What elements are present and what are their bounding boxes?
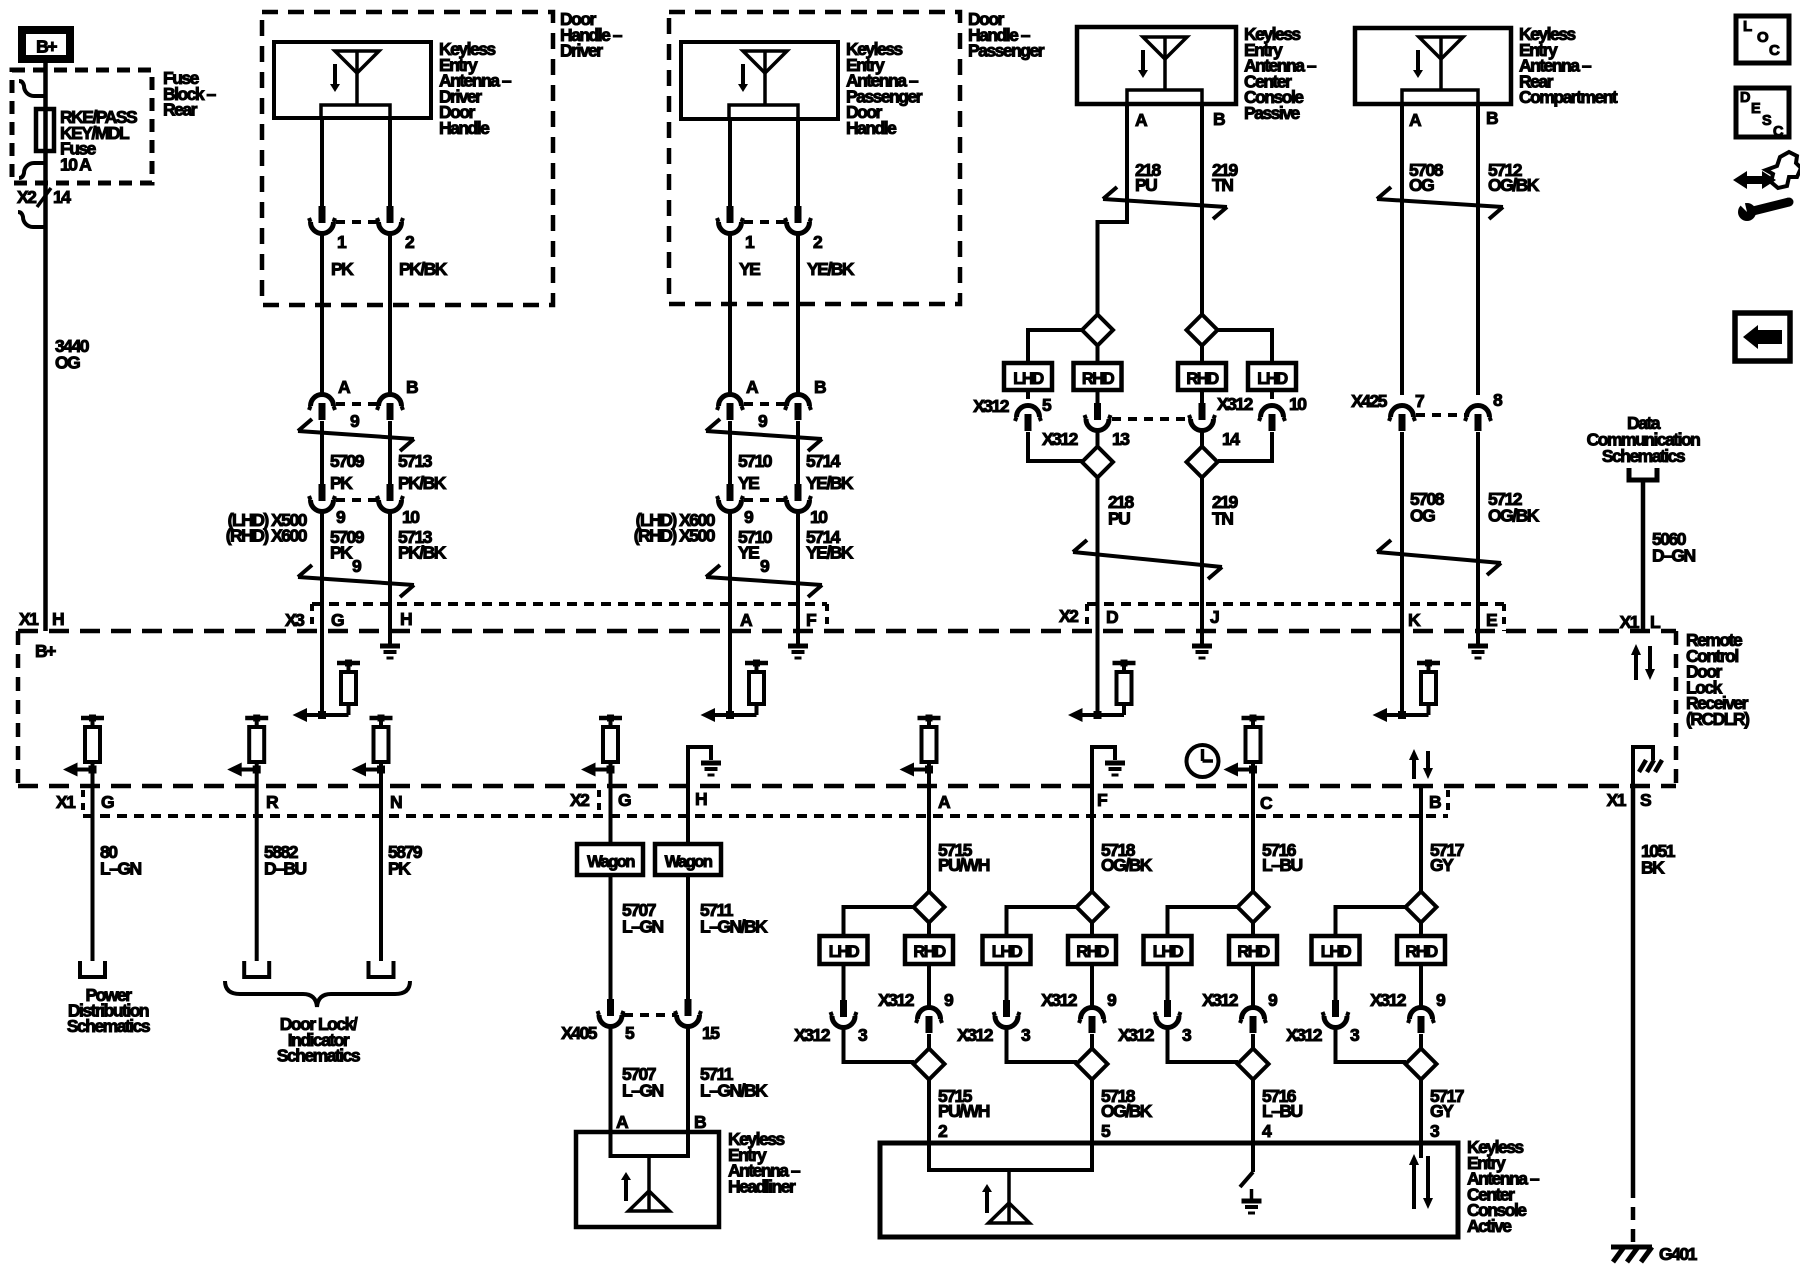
wire 5718 to cc active box	[1090, 1079, 1094, 1143]
svg-text:X312: X312	[1217, 394, 1254, 414]
wire to RHD box 5718	[1090, 922, 1094, 936]
connector strip X3	[312, 602, 827, 606]
wire LHD to lower diamond 5715	[844, 1028, 915, 1062]
svg-text:H: H	[400, 609, 412, 629]
svg-text:B: B	[1486, 108, 1498, 128]
connector X500 pin 9 driver	[319, 484, 326, 501]
svg-text:X425: X425	[1351, 391, 1388, 411]
svg-text:10: 10	[402, 507, 420, 527]
output element C with clock	[1242, 716, 1265, 721]
antenna terminal bar passenger	[729, 105, 798, 119]
svg-text:Wagon: Wagon	[665, 853, 713, 871]
connector pin 1 driver	[319, 206, 326, 223]
wire 1051 BK dashed	[1631, 1185, 1636, 1246]
svg-text:5713: 5713	[398, 451, 433, 471]
wire 5060 D-GN	[1641, 480, 1646, 631]
connector X312 3 5717	[1334, 964, 1338, 1001]
flag ground wagon H	[688, 747, 711, 786]
connector link driver 1-2	[336, 220, 377, 224]
twisted pair rear upper	[1377, 199, 1503, 207]
twisted pair cc passive upper	[1103, 199, 1227, 207]
wire 5715 to cc active box	[927, 1079, 931, 1143]
svg-text:GY: GY	[1430, 1101, 1454, 1121]
wire 3440 OG from B+ to RCDLR pin H	[43, 63, 48, 631]
svg-text:B: B	[1429, 792, 1441, 812]
svg-text:OG/BK: OG/BK	[1101, 855, 1153, 875]
svg-text:PU: PU	[1108, 509, 1130, 529]
wire 5711 L-GN/BK lower	[686, 1027, 690, 1132]
connector link driver A-B	[336, 402, 377, 406]
RHD box cc left	[1074, 363, 1122, 390]
svg-text:C: C	[1260, 793, 1273, 813]
svg-text:D–BU: D–BU	[264, 859, 307, 879]
svg-text:RHD: RHD	[1076, 943, 1109, 961]
keyless entry antenna center console active box	[880, 1143, 1458, 1237]
connector X405 pin 5	[607, 999, 614, 1016]
svg-text:PU/WH: PU/WH	[938, 855, 990, 875]
svg-text:LHD: LHD	[829, 943, 860, 961]
terminal 80	[80, 961, 105, 977]
svg-text:X312: X312	[957, 1025, 994, 1045]
wire LHD to lower diamond 5717	[1336, 1028, 1407, 1062]
svg-text:15: 15	[702, 1023, 720, 1043]
door handle passenger dashed box	[669, 12, 960, 304]
wire 5713 to RCDLR H	[388, 512, 392, 631]
svg-text:A: A	[1135, 110, 1148, 130]
connector link X500 driver	[336, 498, 377, 502]
svg-text:A: A	[1409, 110, 1422, 130]
serial data arrows at L	[1634, 654, 1638, 680]
ground inside RCDLR under J	[1200, 631, 1204, 644]
svg-text:Schematics: Schematics	[67, 1016, 151, 1036]
wire 5714 YE/BK segment	[796, 421, 800, 485]
antenna cc passive element in RCDLR	[1096, 631, 1100, 715]
connector X405 pin 15	[685, 999, 692, 1016]
fuse holder clip top	[19, 81, 46, 96]
svg-text:X312: X312	[1042, 429, 1079, 449]
connector X425 pin 7	[1391, 406, 1414, 417]
svg-text:RHD: RHD	[1082, 370, 1115, 388]
connector pin A driver	[311, 395, 334, 407]
wire 5707 L-GN lower	[609, 1027, 613, 1132]
svg-text:X2: X2	[1059, 606, 1079, 626]
RHD box cc right	[1178, 363, 1226, 390]
output element A cc active	[918, 716, 941, 721]
svg-text:Handle: Handle	[439, 118, 490, 138]
connector slash at X2	[37, 188, 51, 207]
twisted pair rear lower	[1377, 552, 1501, 563]
svg-text:A: A	[746, 377, 759, 397]
connector link passenger A-B	[744, 402, 785, 406]
RHD box 5718	[1068, 936, 1116, 964]
svg-text:L–GN: L–GN	[622, 917, 664, 937]
wire diamond to RHD right cc	[1200, 345, 1204, 363]
connector X312 3 5716	[1166, 964, 1170, 1001]
splice diamond 219 lower	[1187, 447, 1218, 478]
output element R	[245, 716, 268, 721]
svg-text:PK/BK: PK/BK	[399, 259, 448, 279]
wire RHD left down	[1096, 431, 1100, 447]
wire to LHD box 5717	[1336, 907, 1407, 936]
antenna symbol driver	[335, 51, 379, 73]
svg-text:X312: X312	[1286, 1025, 1323, 1045]
icon back arrow	[1735, 313, 1790, 361]
svg-text:Passenger: Passenger	[968, 41, 1045, 61]
svg-text:Driver: Driver	[560, 41, 603, 61]
wire 219 TN upper segment	[1200, 104, 1204, 315]
svg-text:X1: X1	[56, 792, 76, 812]
svg-text:PK/BK: PK/BK	[398, 543, 447, 563]
svg-text:OG: OG	[55, 353, 80, 373]
svg-text:14: 14	[53, 187, 71, 207]
svg-text:YE/BK: YE/BK	[806, 473, 854, 493]
wire 5882 D-BU	[255, 786, 259, 961]
twisted pair passenger upper	[706, 431, 822, 439]
splice diamond 5716 upper	[1238, 892, 1269, 923]
wire 5711 L-GN/BK upper	[686, 875, 690, 1000]
svg-text:PK: PK	[330, 543, 353, 563]
svg-text:S: S	[1640, 790, 1651, 810]
svg-text:X1: X1	[19, 609, 39, 629]
connector X600 pin 9 passenger	[727, 484, 734, 501]
connector strip X2	[1087, 602, 1504, 606]
svg-text:B+: B+	[36, 37, 57, 57]
svg-text:5709: 5709	[330, 451, 365, 471]
wire 5879 PK	[379, 786, 383, 961]
connector X500 pin 10 driver	[387, 484, 394, 501]
svg-text:K: K	[1408, 610, 1421, 630]
wire RHD to lower diamond 5716	[1251, 1034, 1255, 1049]
serial arrows at B	[1412, 759, 1416, 779]
wire 5712 upper segment	[1476, 104, 1480, 395]
wire antenna passenger pin1	[728, 119, 732, 207]
brace door lock	[225, 981, 410, 1007]
splice diamond 5715 lower	[914, 1049, 945, 1080]
svg-text:Handle: Handle	[846, 118, 897, 138]
connector X312 9 5717	[1419, 964, 1423, 1007]
wire 5710 YE segment	[728, 421, 732, 485]
svg-text:OG/BK: OG/BK	[1488, 506, 1540, 526]
svg-text:X312: X312	[1041, 990, 1078, 1010]
connector pin 2 driver	[387, 206, 394, 223]
keyless entry antenna driver door handle box	[274, 42, 431, 118]
LHD box 5716	[1144, 936, 1192, 964]
connector X312 3 5718	[1005, 964, 1009, 1001]
icon wiring harness arrow	[1733, 171, 1776, 189]
splice diamond 5715 upper	[914, 892, 945, 923]
svg-text:Headliner: Headliner	[728, 1176, 796, 1196]
wire 5710 to RCDLR A	[728, 512, 732, 631]
svg-text:L–GN: L–GN	[622, 1081, 664, 1101]
svg-text:RHD: RHD	[913, 943, 946, 961]
RHD box 5717	[1397, 936, 1445, 964]
connector X312 9 5715	[927, 964, 931, 1007]
wire 5707 L-GN upper	[609, 875, 613, 1000]
wire 5708 upper segment	[1400, 104, 1404, 395]
svg-text:X2: X2	[17, 187, 37, 207]
terminal 5882	[244, 961, 269, 977]
connector X312 3 5715	[842, 964, 846, 1001]
wire LHD to lower diamond 5718	[1007, 1028, 1078, 1062]
svg-text:G: G	[101, 792, 114, 812]
antenna symbol passenger	[743, 51, 787, 73]
svg-text:B: B	[1213, 109, 1225, 129]
twisted pair driver lower	[298, 577, 414, 585]
wire antenna driver pin1	[320, 118, 324, 207]
svg-text:RHD: RHD	[1237, 943, 1270, 961]
wire 5715 PU/WH from RCDLR pin	[927, 786, 931, 892]
svg-text:L–GN/BK: L–GN/BK	[700, 917, 768, 937]
svg-text:D: D	[1106, 607, 1118, 627]
svg-text:B: B	[694, 1112, 706, 1132]
connector link X425	[1416, 413, 1465, 417]
splice diamond 5717 lower	[1406, 1049, 1437, 1080]
ground inside RCDLR under F	[796, 631, 800, 644]
wire to RHD box 5715	[927, 922, 931, 936]
keyless entry antenna center console passive box	[1077, 27, 1236, 104]
svg-text:L–GN/BK: L–GN/BK	[700, 1081, 768, 1101]
wire to LHD box 5715	[844, 907, 915, 936]
svg-text:A: A	[938, 792, 951, 812]
keyless entry antenna headliner box	[576, 1132, 719, 1227]
antenna symbol rear compartment	[1419, 37, 1463, 59]
door handle driver dashed box	[262, 12, 553, 305]
svg-text:L–BU: L–BU	[1262, 855, 1303, 875]
connector RHD left cc X312 13	[1096, 390, 1100, 403]
svg-text:14: 14	[1222, 429, 1240, 449]
svg-text:L–BU: L–BU	[1262, 1101, 1303, 1121]
svg-text:G401: G401	[1659, 1244, 1698, 1264]
terminal 5879	[369, 961, 394, 977]
wire 5708 to RCDLR K	[1400, 432, 1404, 631]
switch to ground at pin 4	[1251, 1143, 1255, 1172]
wire 5717 to cc active box	[1419, 1079, 1423, 1143]
svg-text:BK: BK	[1641, 858, 1665, 878]
svg-text:Passive: Passive	[1244, 103, 1300, 123]
svg-text:X312: X312	[1202, 990, 1239, 1010]
svg-text:10: 10	[810, 507, 828, 527]
svg-text:X405: X405	[561, 1023, 598, 1043]
connector pin B passenger	[787, 395, 810, 407]
twisted pair cc passive lower	[1073, 552, 1222, 567]
output element wagon G	[599, 716, 622, 721]
LHD box cc right	[1248, 363, 1296, 390]
svg-text:L–GN: L–GN	[100, 859, 142, 879]
wire 1051 BK	[1631, 786, 1636, 1185]
antenna symbol headliner	[647, 1156, 651, 1211]
svg-text:X312: X312	[1370, 990, 1407, 1010]
wire to LHD left cc	[1028, 330, 1082, 363]
LHD box cc left	[1004, 363, 1052, 390]
svg-text:YE/BK: YE/BK	[806, 543, 854, 563]
svg-text:TN: TN	[1212, 175, 1233, 195]
svg-text:5710: 5710	[738, 451, 773, 471]
antenna terminal bar driver	[321, 105, 390, 118]
connector LHD right cc	[1270, 390, 1274, 399]
bottom strip tick X1	[81, 790, 85, 816]
wire 218 PU to RCDLR D	[1096, 477, 1100, 631]
wire RHD to lower diamond 5718	[1090, 1034, 1094, 1049]
svg-text:LHD: LHD	[1013, 370, 1044, 388]
svg-text:LHD: LHD	[1257, 370, 1288, 388]
LHD box 5715	[820, 936, 868, 964]
wire RHD to lower diamond 5715	[927, 1034, 931, 1049]
svg-text:YE: YE	[738, 543, 759, 563]
keyless entry antenna rear compartment box	[1355, 28, 1511, 104]
bottom strip tick X2	[597, 790, 601, 816]
svg-text:TN: TN	[1212, 509, 1233, 529]
svg-text:X2: X2	[570, 790, 590, 810]
output element N	[370, 716, 393, 721]
svg-text:X312: X312	[973, 396, 1010, 416]
wire 80 L-GN	[91, 786, 95, 961]
svg-text:N: N	[390, 792, 402, 812]
svg-text:YE: YE	[738, 473, 759, 493]
antenna terminal bar cc passive	[1127, 90, 1202, 104]
serial arrows cc active pin 3	[1419, 1143, 1423, 1158]
svg-text:G: G	[618, 790, 631, 810]
svg-text:Active: Active	[1467, 1216, 1512, 1236]
svg-text:Compartment: Compartment	[1519, 87, 1618, 107]
wire YE/BK down to B	[796, 234, 800, 394]
connector link X600 passenger	[744, 498, 785, 502]
svg-text:J: J	[1210, 607, 1219, 627]
svg-text:GY: GY	[1430, 855, 1454, 875]
svg-text:X312: X312	[1118, 1025, 1155, 1045]
RCDLR box bottom border	[18, 784, 1676, 789]
connector X600 pin 10 passenger	[795, 484, 802, 501]
svg-text:YE: YE	[739, 259, 760, 279]
connector X312 9 5716	[1251, 964, 1255, 1007]
wire 5718 OG/BK from RCDLR pin	[1090, 786, 1094, 892]
wire wagon H down	[686, 786, 690, 844]
wire PK down to A	[320, 234, 324, 394]
connector link X405	[624, 1013, 675, 1017]
wagon box 2	[655, 844, 721, 875]
wire 5713 PK/BK segment	[388, 421, 392, 485]
fuse holder clip bottom	[19, 163, 46, 178]
svg-text:L: L	[1743, 18, 1752, 35]
wire 5716 L-BU from RCDLR pin	[1251, 786, 1255, 892]
svg-text:RHD: RHD	[1186, 370, 1219, 388]
ground G401	[1611, 1245, 1652, 1250]
wire to RHD box 5716	[1251, 922, 1255, 936]
svg-text:D: D	[1740, 90, 1750, 106]
ground inside RCDLR under E	[1476, 631, 1480, 644]
wire clip below X2	[18, 212, 46, 227]
svg-text:PK: PK	[330, 473, 353, 493]
wire YE down to A	[728, 234, 732, 394]
svg-text:X1: X1	[1607, 790, 1627, 810]
fuse block - rear dashed box	[12, 70, 152, 183]
splice diamond 218 lower	[1082, 447, 1113, 478]
svg-text:A: A	[338, 377, 351, 397]
wire LHD right to diamond	[1218, 432, 1272, 461]
wire antenna passenger pin2	[796, 119, 800, 207]
svg-text:RHD: RHD	[1405, 943, 1438, 961]
wire RHD right down	[1200, 431, 1204, 447]
connector X425 pin 8	[1467, 406, 1490, 417]
svg-text:13: 13	[1112, 429, 1130, 449]
wire RHD to lower diamond 5717	[1419, 1034, 1423, 1049]
svg-text:X312: X312	[794, 1025, 831, 1045]
wire 5709 to RCDLR G	[320, 512, 324, 631]
svg-text:D–GN: D–GN	[1652, 546, 1695, 566]
flag ground F cc active	[1092, 747, 1115, 786]
svg-text:Schematics: Schematics	[1602, 446, 1686, 466]
svg-text:(RHD) X500: (RHD) X500	[634, 526, 716, 546]
svg-text:YE/BK: YE/BK	[807, 259, 855, 279]
svg-text:E: E	[1486, 610, 1497, 630]
antenna rear element in RCDLR	[1400, 631, 1404, 715]
connector RHD right cc X312 14	[1200, 390, 1204, 403]
keyless entry antenna passenger door handle box	[681, 42, 838, 119]
wire to RHD box 5717	[1419, 922, 1423, 936]
svg-text:LHD: LHD	[1153, 943, 1184, 961]
svg-text:B: B	[406, 377, 418, 397]
svg-text:A: A	[740, 610, 753, 630]
svg-text:Schematics: Schematics	[277, 1046, 361, 1066]
svg-text:H: H	[52, 609, 64, 629]
wire 5712 to RCDLR E	[1476, 432, 1480, 631]
svg-text:OG: OG	[1410, 506, 1435, 526]
wires into headliner box	[609, 1132, 613, 1156]
svg-text:H: H	[695, 789, 707, 809]
LHD box 5717	[1312, 936, 1360, 964]
wire 5717 GY from RCDLR pin	[1419, 786, 1423, 892]
antenna symbol center console passive	[1143, 37, 1187, 59]
svg-text:Rear: Rear	[163, 100, 198, 120]
RHD box 5716	[1229, 936, 1277, 964]
wire to LHD box 5716	[1168, 907, 1239, 936]
wire 5714 to RCDLR F	[796, 512, 800, 631]
svg-text:(RHD) X600: (RHD) X600	[226, 526, 308, 546]
fuse RKE/PASS KEY/MDL 10A	[36, 109, 54, 151]
svg-text:LHD: LHD	[992, 943, 1023, 961]
ground hook at S	[1633, 747, 1653, 786]
wire PK/BK down to B	[388, 234, 392, 394]
svg-text:R: R	[266, 792, 279, 812]
RCDLR box top border	[18, 629, 1676, 634]
wires into cc active box	[927, 1143, 931, 1170]
svg-text:OG: OG	[1409, 175, 1434, 195]
svg-text:G: G	[331, 610, 344, 630]
svg-text:PU/WH: PU/WH	[938, 1101, 990, 1121]
svg-text:5714: 5714	[806, 451, 841, 471]
svg-text:X3: X3	[285, 610, 305, 630]
svg-text:B: B	[814, 377, 826, 397]
svg-text:PU: PU	[1135, 175, 1157, 195]
icon LOC	[1736, 16, 1789, 63]
twisted pair driver upper	[298, 431, 414, 439]
wire 5716 to cc active box	[1251, 1079, 1255, 1143]
antenna terminal bar rear	[1402, 90, 1478, 104]
RCDLR box left border	[16, 631, 21, 786]
battery node B+	[22, 30, 70, 59]
wire 5709 PK segment	[320, 421, 324, 485]
off-page bracket data	[1629, 468, 1657, 480]
ground inside RCDLR under H	[388, 631, 392, 644]
svg-text:A: A	[616, 1112, 629, 1132]
connector pin B driver	[379, 395, 402, 407]
RHD box 5715	[905, 936, 953, 964]
splice diamond 5717 upper	[1406, 892, 1437, 923]
wagon box 1	[577, 844, 643, 875]
svg-text:PK/BK: PK/BK	[398, 473, 447, 493]
splice diamond 5718 upper	[1077, 892, 1108, 923]
twisted pair passenger lower	[706, 577, 822, 585]
connector pin 2 passenger	[795, 206, 802, 223]
